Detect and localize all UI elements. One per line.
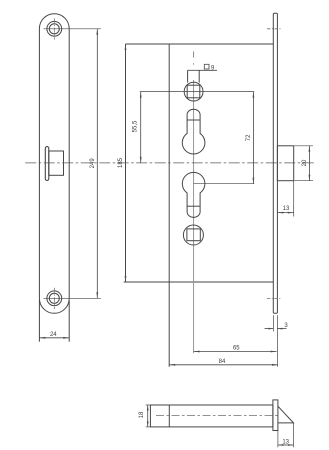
dim 13 side extension <box>293 181 295 217</box>
side view faceplate bar <box>273 13 277 313</box>
bottom view faceplate <box>273 400 278 431</box>
lock case top edge <box>126 43 274 45</box>
chord upper stem <box>187 119 201 121</box>
dim 13 bottom extensions <box>293 423 295 447</box>
svg-text:249: 249 <box>90 158 96 169</box>
svg-text:24: 24 <box>50 332 57 338</box>
top screw centerline on bar <box>267 28 281 30</box>
lower circle center extension <box>194 183 255 185</box>
dim 249 extension top <box>44 28 101 30</box>
euro profile hole lower <box>182 172 205 217</box>
bottom view latch bevel <box>278 406 294 423</box>
dim 3 line left <box>265 328 274 330</box>
dim 65 line <box>194 351 277 353</box>
84 arrows <box>169 364 175 366</box>
slot above follower <box>187 70 189 82</box>
dim 24 line <box>39 337 69 339</box>
13 bottom arrows <box>278 444 284 446</box>
dim 3 line right <box>277 328 286 330</box>
249 arrows <box>96 29 98 35</box>
case front line + 84 extension <box>168 44 170 367</box>
bottom view case bar <box>150 405 273 427</box>
svg-text:18: 18 <box>139 411 145 418</box>
bottom follower circle <box>183 225 203 245</box>
leader line for square 9 <box>188 69 217 71</box>
bottom view joint line <box>168 405 170 427</box>
20 arrows <box>309 146 311 152</box>
dim 72 line <box>252 92 254 184</box>
dim 20 extensions <box>295 145 314 147</box>
euro profile hole upper <box>182 109 205 154</box>
dim 84 line <box>169 364 278 366</box>
dim 55.5 line <box>140 92 142 163</box>
dim 249 line <box>96 29 98 299</box>
follower center extension line <box>140 91 254 93</box>
dim 18 extensions <box>146 404 151 406</box>
follower square 9mm <box>187 85 200 98</box>
dim 20 line <box>308 146 310 181</box>
faceplate front view outline <box>39 14 69 314</box>
dim 3 extensions <box>272 315 274 331</box>
horizontal centerline <box>25 162 316 164</box>
bottom follower square <box>187 229 200 241</box>
bottom view centerline <box>156 415 280 417</box>
arrowheads <box>39 29 310 446</box>
185 arrows <box>125 44 127 50</box>
svg-text:13: 13 <box>283 206 290 212</box>
55.5 arrows <box>140 92 142 98</box>
dim 13 side line <box>277 212 293 214</box>
screw hole top <box>47 18 62 39</box>
3 arrows <box>268 328 273 330</box>
svg-text:185: 185 <box>118 157 124 168</box>
24 arrows <box>39 337 45 339</box>
dim 249 extension bottom <box>44 297 101 299</box>
bottom screw centerline on bar <box>267 297 281 299</box>
side latch <box>277 146 293 181</box>
chord lower stem <box>187 205 201 207</box>
screw hole bottom <box>47 288 62 309</box>
follower circle <box>184 82 203 101</box>
13 side arrows <box>277 212 283 214</box>
lock case bottom edge <box>124 281 274 283</box>
svg-text:65: 65 <box>233 346 240 352</box>
latch body front view <box>49 151 64 175</box>
label square-9 symbol <box>204 64 209 69</box>
svg-text:13: 13 <box>282 439 289 445</box>
18 arrows <box>147 405 149 411</box>
65 arrows <box>194 351 200 353</box>
lock case left edge / 185 dim line <box>125 44 127 282</box>
svg-text:55,5: 55,5 <box>132 120 138 132</box>
svg-text:20: 20 <box>302 159 308 166</box>
72 arrows <box>253 92 255 98</box>
svg-text:72: 72 <box>246 134 252 141</box>
vertical centerline of holes <box>193 52 195 58</box>
dim 24 extension lines <box>38 300 40 342</box>
latch face front view <box>45 147 49 181</box>
svg-text:84: 84 <box>219 359 226 365</box>
dim 13 bottom line <box>278 444 294 446</box>
dim 18 line <box>147 405 149 427</box>
